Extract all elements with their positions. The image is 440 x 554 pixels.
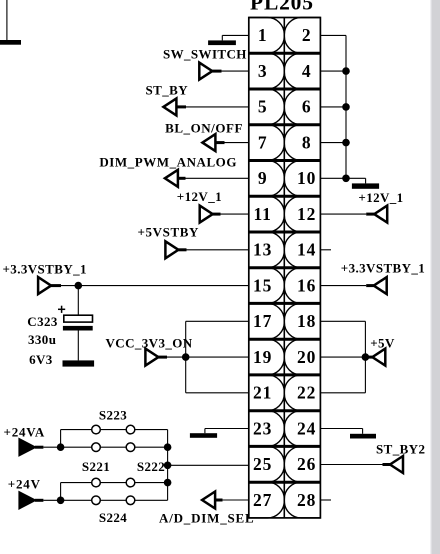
wire +24VA up to S223 row: [60, 430, 62, 448]
port A/D_DIM_SEL lead: [215, 499, 222, 502]
wire jumper S223 middle: [100, 429, 126, 431]
svg-text:9: 9: [258, 168, 268, 188]
svg-text:12: 12: [297, 204, 316, 224]
jumper S223 left circle: [92, 425, 101, 434]
port +24VA lead: [35, 446, 44, 449]
svg-text:15: 15: [253, 275, 272, 295]
connector row divider 1: [249, 52, 321, 55]
stub wire pin 28: [320, 499, 331, 501]
pin 13 cell: [249, 232, 284, 268]
port ST_BY lead: [176, 105, 186, 108]
wire pin 8 to right bus: [320, 142, 346, 144]
ground lead step pin 1: [221, 35, 223, 40]
ground bar pin 1: [208, 40, 236, 45]
svg-text:+24VA: +24VA: [4, 425, 46, 440]
wire jumper S224 middle: [100, 499, 126, 501]
port +3.3VSTBY_1 right lead: [366, 284, 374, 287]
wire ST_BY to pin 5: [186, 106, 249, 108]
wire jumper S221 to bus: [135, 446, 168, 448]
port +3.3VSTBY_1 left: [38, 277, 51, 294]
jumper S224 left circle: [92, 496, 101, 505]
svg-text:VCC_3V3_ON: VCC_3V3_ON: [106, 336, 193, 351]
ground bar pin 24: [350, 434, 376, 439]
jumper S222 right circle: [126, 478, 135, 487]
svg-text:+12V_1: +12V_1: [358, 190, 403, 205]
ground bar top-left: [0, 40, 21, 45]
pin 14 cell: [284, 232, 320, 268]
pin 10 cell: [284, 161, 320, 197]
svg-text:21: 21: [253, 383, 272, 403]
wire pin 18 to +5V net: [320, 320, 365, 322]
wire pin 26 to ST_BY2: [320, 464, 382, 466]
wire BL_ON/OFF to pin 7: [225, 142, 249, 144]
wire +24V to S224 row: [61, 499, 92, 501]
svg-text:+12V_1: +12V_1: [177, 189, 222, 204]
svg-text:24: 24: [297, 418, 316, 438]
port +24VA power input: [19, 439, 35, 455]
wire VCC_3V3_ON to pin 21: [186, 392, 249, 394]
port +5VSTBY lead: [178, 248, 186, 251]
svg-text:18: 18: [297, 311, 316, 331]
pin 6 cell: [284, 89, 320, 125]
pin 7 cell: [249, 125, 284, 161]
svg-text:A/D_DIM_SEL: A/D_DIM_SEL: [159, 511, 254, 526]
junction jumper bus at S222: [164, 479, 172, 487]
svg-text:6V3: 6V3: [29, 352, 53, 367]
wire +3.3VSTBY_1 to pin 15: [61, 285, 249, 287]
connector row divider 4: [249, 159, 321, 162]
pin 21 cell: [249, 375, 284, 411]
pin 17 cell: [249, 303, 284, 339]
svg-text:C323: C323: [27, 314, 58, 329]
port VCC_3V3_ON: [145, 349, 158, 366]
wire pin 6 to right bus: [320, 106, 346, 108]
stub wire pin 14: [320, 249, 331, 251]
connector row divider 6: [249, 231, 321, 234]
junction node +3.3VSTBY_1 / C323: [75, 282, 83, 290]
svg-text:11: 11: [254, 204, 272, 224]
jumper S223 right circle: [126, 425, 135, 434]
port +3.3VSTBY_1 right: [374, 277, 387, 294]
svg-text:17: 17: [253, 311, 272, 331]
wire jumper bus to pin 25: [168, 464, 249, 466]
port +5V: [372, 349, 385, 366]
svg-text:3: 3: [258, 61, 268, 81]
pin 8 cell: [284, 125, 320, 161]
capacitor C323 polarity plus sign: [58, 308, 65, 310]
svg-text:28: 28: [297, 490, 316, 510]
port SW_SWITCH: [199, 63, 212, 80]
jumper bus vertical wire: [167, 430, 169, 501]
pin 16 cell: [284, 268, 320, 304]
svg-text:SW_SWITCH: SW_SWITCH: [163, 47, 247, 62]
svg-text:2: 2: [302, 25, 312, 45]
svg-text:23: 23: [253, 418, 272, 438]
connector row divider 2: [249, 88, 321, 91]
wire to jumper S223 left: [61, 429, 92, 431]
jumper S222 left circle: [92, 478, 101, 487]
wire jumper S221 middle: [100, 446, 126, 448]
pin 9 cell: [249, 161, 284, 197]
pin 26 cell: [284, 446, 320, 482]
wire C323 to ground: [77, 331, 79, 361]
junction right bus pin 4: [342, 67, 350, 75]
wire junction to C323: [77, 286, 79, 316]
pin 19 cell: [249, 339, 284, 375]
svg-text:16: 16: [297, 275, 316, 295]
capacitor C323 top plate: [64, 315, 93, 322]
pin 28 cell: [284, 482, 320, 518]
svg-text:22: 22: [297, 383, 316, 403]
ground bar pin 23: [190, 433, 217, 438]
port +5VSTBY: [165, 241, 178, 258]
wire +24V up to S222 row: [60, 483, 62, 501]
wire A/D_DIM_SEL to pin 27: [223, 499, 249, 501]
junction node +24V: [57, 497, 65, 505]
svg-text:S223: S223: [99, 407, 127, 422]
connector row divider 3: [249, 123, 321, 126]
port +3.3VSTBY_1 left lead: [51, 284, 61, 287]
port BL_ON/OFF lead: [215, 141, 224, 144]
pin 20 cell: [284, 339, 320, 375]
wire VCC_3V3_ON to pin 17: [186, 320, 249, 322]
wire +24VA to junction: [43, 446, 60, 448]
wire jumper S224 to bus: [135, 499, 168, 501]
junction +5V net: [362, 353, 370, 361]
svg-text:5: 5: [258, 97, 268, 117]
wire +12V_1 to pin 11: [221, 213, 249, 215]
wire SW_SWITCH to pin 3: [222, 70, 249, 72]
wire +24V to junction: [43, 499, 60, 501]
svg-text:26: 26: [297, 454, 316, 474]
port DIM_PWM_ANALOG lead: [178, 177, 186, 180]
svg-text:7: 7: [258, 132, 268, 152]
junction node VCC_3V3_ON: [182, 353, 190, 361]
wire pin 24 to ground: [320, 428, 362, 430]
connector row divider 11: [249, 409, 321, 412]
junction right bus pin 8: [342, 139, 350, 147]
ground lead step right bus: [365, 178, 367, 183]
svg-text:BL_ON/OFF: BL_ON/OFF: [165, 120, 243, 135]
connector center divider line: [283, 18, 285, 518]
connector row divider 5: [249, 195, 321, 198]
svg-text:13: 13: [253, 240, 272, 260]
pin 18 cell: [284, 303, 320, 339]
svg-text:25: 25: [253, 454, 272, 474]
pin 11 cell: [249, 196, 284, 232]
port DIM_PWM_ANALOG: [165, 170, 178, 187]
port +24V power input: [19, 492, 35, 508]
jumper S224 right circle: [126, 496, 135, 505]
connector PL205 body outline: [249, 18, 321, 518]
pin 4 cell: [284, 53, 320, 89]
port +5V lead: [365, 356, 372, 359]
pin 12 cell: [284, 196, 320, 232]
svg-text:+5VSTBY: +5VSTBY: [138, 225, 199, 240]
port +12V_1 right: [374, 206, 387, 223]
svg-text:PL205: PL205: [250, 0, 314, 15]
connector row divider 12: [249, 445, 321, 448]
svg-text:+24V: +24V: [8, 477, 41, 492]
svg-text:27: 27: [253, 490, 272, 510]
ground lead right bus: [346, 177, 366, 179]
ground bar right bus: [352, 183, 379, 188]
svg-text:19: 19: [253, 347, 272, 367]
jumper S221 left circle: [92, 443, 101, 452]
port ST_BY2: [390, 456, 403, 473]
wire jumper S223 to bus: [135, 429, 168, 431]
svg-text:ST_BY: ST_BY: [146, 83, 189, 98]
port ST_BY: [163, 98, 176, 115]
connector row divider 10: [249, 373, 321, 376]
capacitor C323 bottom plate: [63, 326, 93, 331]
wire to jumper S222 left: [61, 482, 92, 484]
ground lead step pin 24: [362, 429, 364, 434]
wire pin 2 to right bus: [320, 34, 346, 36]
port +12V_1 left lead: [213, 213, 221, 216]
pin 25 cell: [249, 446, 284, 482]
svg-text:8: 8: [302, 132, 312, 152]
svg-text:20: 20: [297, 347, 316, 367]
wire DIM_PWM_ANALOG to pin 9: [186, 177, 249, 179]
wire +24VA to S221 row: [61, 446, 92, 448]
svg-text:S221: S221: [82, 459, 110, 474]
port ST_BY2 lead: [383, 463, 391, 466]
right ground bus vertical wire: [345, 35, 347, 178]
pin 15 cell: [249, 268, 284, 304]
pin 2 cell: [284, 18, 320, 54]
wire VCC_3V3_ON vertical bus: [185, 321, 187, 393]
svg-text:+3.3VSTBY_1: +3.3VSTBY_1: [3, 262, 87, 277]
junction jumper bus at pin 25 wire: [164, 462, 172, 470]
pin 27 cell: [249, 482, 284, 518]
pin 22 cell: [284, 375, 320, 411]
svg-text:+3.3VSTBY_1: +3.3VSTBY_1: [341, 261, 425, 276]
junction right bus pin 6: [342, 103, 350, 111]
wire jumper S222 middle: [100, 482, 126, 484]
wire pin 22 to +5V net: [320, 392, 365, 394]
svg-text:S224: S224: [99, 510, 127, 525]
port VCC_3V3_ON lead: [158, 356, 167, 359]
junction node +24VA: [57, 443, 65, 451]
port A/D_DIM_SEL: [202, 492, 215, 509]
svg-text:ST_BY2: ST_BY2: [376, 441, 425, 456]
grey page edge band: [431, 0, 440, 554]
wire pin 12 to +12V_1: [320, 213, 366, 215]
svg-text:6: 6: [302, 97, 312, 117]
wire pin 23 to ground: [205, 428, 249, 430]
pin 1 cell: [249, 18, 284, 54]
jumper S221 right circle: [126, 443, 135, 452]
svg-text:330u: 330u: [28, 332, 56, 347]
connector row divider 8: [249, 302, 321, 305]
ground bar under C323: [63, 360, 95, 366]
port BL_ON/OFF: [202, 134, 215, 151]
port +24V lead: [35, 499, 44, 502]
+5V net vertical wire: [364, 321, 366, 393]
ground lead step pin 23: [204, 429, 206, 434]
svg-text:S222: S222: [137, 459, 165, 474]
pin 23 cell: [249, 411, 284, 447]
wire to top-left ground: [6, 0, 8, 40]
pin 24 cell: [284, 411, 320, 447]
pin 3 cell: [249, 53, 284, 89]
wire VCC_3V3_ON to pin 19: [167, 356, 249, 358]
wire +5VSTBY to pin 13: [187, 249, 249, 251]
svg-text:14: 14: [297, 240, 316, 260]
svg-text:1: 1: [258, 25, 268, 45]
connector row divider 7: [249, 266, 321, 269]
wire pin 16 to +3.3VSTBY_1: [320, 285, 366, 287]
junction jumper bus at S221: [164, 443, 172, 451]
svg-text:4: 4: [302, 61, 312, 81]
port +12V_1 right lead: [366, 213, 374, 216]
junction right bus pin 10: [342, 175, 350, 183]
port SW_SWITCH lead: [212, 70, 221, 73]
wire pin 4 to right bus: [320, 70, 346, 72]
wire jumper S222 to bus: [135, 482, 168, 484]
wire pin 1 to ground: [222, 34, 249, 36]
connector row divider 13: [249, 481, 321, 484]
svg-text:10: 10: [297, 168, 316, 188]
pin 5 cell: [249, 89, 284, 125]
connector row divider 9: [249, 338, 321, 341]
wire pin 10 to right bus: [320, 177, 346, 179]
wire pin 20 to +5V net: [320, 356, 365, 358]
svg-text:DIM_PWM_ANALOG: DIM_PWM_ANALOG: [99, 154, 237, 169]
svg-text:+5V: +5V: [370, 336, 395, 351]
port +12V_1 left: [200, 206, 213, 223]
